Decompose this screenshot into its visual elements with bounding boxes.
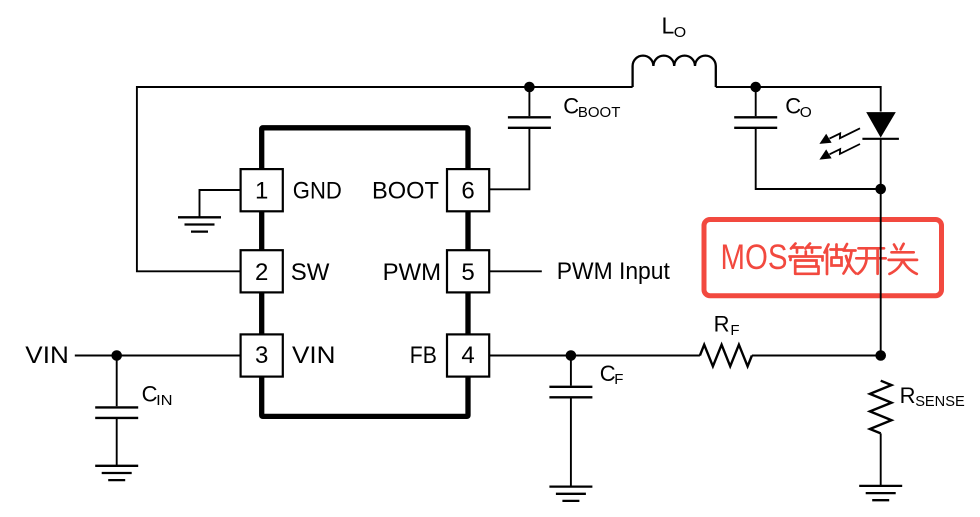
svg-text:BOOT: BOOT <box>372 178 439 205</box>
svg-text:R: R <box>714 312 730 337</box>
svg-text:R: R <box>900 383 916 408</box>
svg-text:VIN: VIN <box>292 342 336 369</box>
svg-text:PWM: PWM <box>383 259 442 286</box>
svg-text:FB: FB <box>410 342 437 369</box>
svg-text:C: C <box>563 94 579 119</box>
svg-text:5: 5 <box>461 259 474 286</box>
svg-text:3: 3 <box>255 342 268 369</box>
svg-text:O: O <box>800 104 812 121</box>
svg-text:F: F <box>730 322 739 339</box>
svg-text:6: 6 <box>461 178 474 205</box>
svg-text:2: 2 <box>255 259 268 286</box>
svg-text:SW: SW <box>291 259 330 286</box>
svg-text:1: 1 <box>255 178 268 205</box>
svg-text:4: 4 <box>461 342 474 369</box>
svg-text:MOS: MOS <box>721 238 788 277</box>
svg-text:C: C <box>785 94 801 119</box>
svg-text:PWM Input: PWM Input <box>557 258 670 285</box>
svg-text:F: F <box>614 371 623 388</box>
svg-text:L: L <box>662 13 675 39</box>
svg-text:O: O <box>674 24 686 41</box>
svg-text:GND: GND <box>293 178 342 205</box>
svg-text:IN: IN <box>156 392 173 409</box>
svg-text:SENSE: SENSE <box>915 393 965 410</box>
svg-text:VIN: VIN <box>25 342 69 369</box>
svg-text:BOOT: BOOT <box>578 104 621 121</box>
